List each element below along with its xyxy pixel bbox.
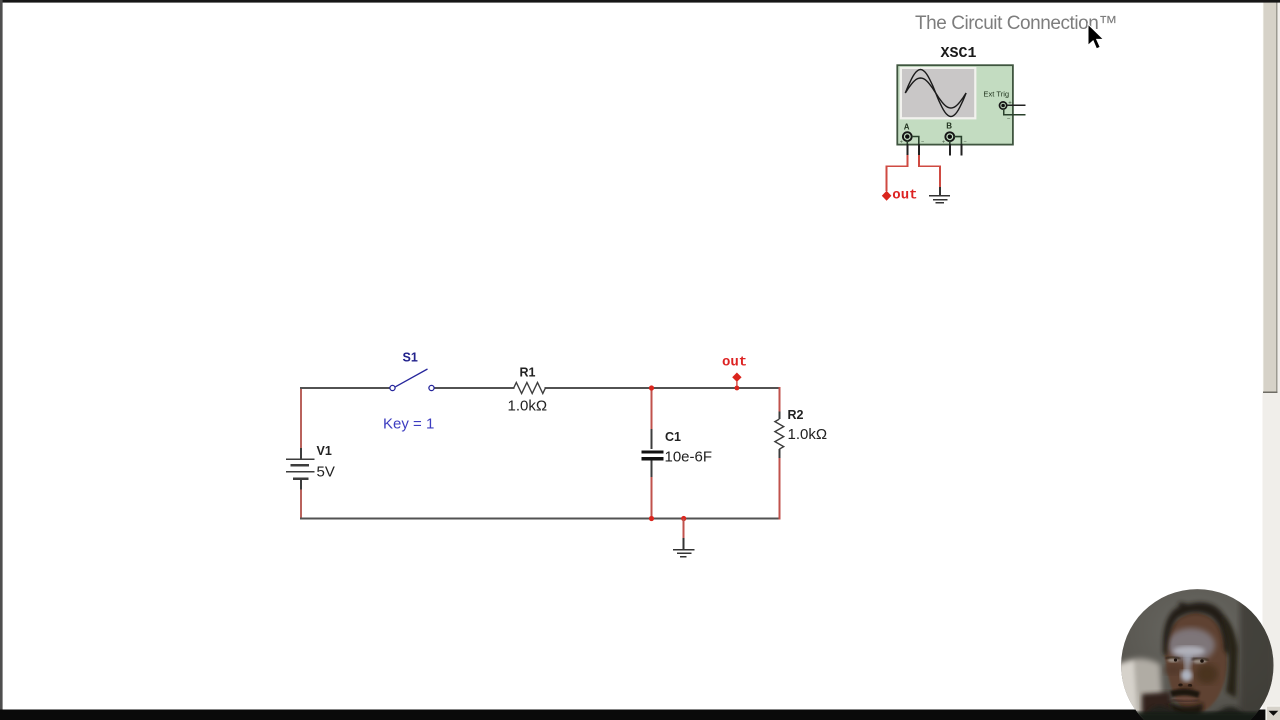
switch S1 [383,351,434,433]
wire capacitor branch [651,388,653,519]
lips [1171,697,1200,702]
sine waveform traces [905,70,966,117]
dark furniture bottom-left [1142,692,1172,720]
switch contact left [390,385,395,390]
top black bar [0,0,1280,3]
junction node C1 top [649,385,654,390]
svg-text:V1: V1 [317,444,332,458]
channel B pin stubs [954,137,961,145]
light wall lower-left [1114,658,1164,720]
R2 leads [778,412,780,458]
wire battery top-left vertical and top run to switch [301,388,390,448]
svg-text:+: + [942,139,945,145]
svg-text:10e-6F: 10e-6F [665,449,713,466]
left window edge [0,0,3,712]
oscilloscope screen [900,67,977,120]
wire left vertical lower [300,490,302,519]
svg-text:Ext Trig: Ext Trig [983,89,1009,98]
under-eye / cheek shading [1164,665,1182,675]
C1 plate bottom [641,457,663,460]
switch contact right [429,385,434,390]
net label out (circuit) with diamond tap [722,355,747,391]
capacitor C1 [641,430,712,466]
channel B terminal [945,132,954,141]
svg-text:5V: 5V [317,464,335,481]
hair right side [1222,616,1238,698]
wire R1 to R2 corner [545,387,779,389]
beard chin [1169,702,1203,720]
switch lever [395,369,427,387]
clothing bottom [1144,705,1248,720]
resistor R2 [775,408,827,458]
junction node C1 bottom [649,516,654,521]
net label out (scope) with diamond [882,188,918,204]
wire right vertical [778,388,780,519]
wire scope channel A- to ground [919,155,940,187]
svg-text:Key = 1: Key = 1 [383,416,434,433]
darker right bg [1240,587,1274,720]
hair cap [1163,602,1231,656]
head base skin [1165,612,1227,714]
svg-text:out: out [722,355,747,371]
svg-text:XSC1: XSC1 [941,45,977,62]
channel A terminal [903,132,912,141]
junction node ground tap [681,516,686,521]
svg-text:1.0kΩ: 1.0kΩ [508,398,548,415]
wire switch to R1 [434,387,514,389]
svg-text:out: out [892,188,917,204]
channel A pin stubs [912,137,919,145]
wire scope channel A+ to out node [887,155,908,191]
svg-text:S1: S1 [403,351,418,365]
mustache [1170,689,1200,698]
svg-text:+: + [900,139,903,145]
R1 zigzag [514,383,546,394]
upper face light [1167,628,1215,662]
scrollbar down button [1266,706,1280,720]
bottom black bar [0,710,1280,720]
svg-text:B: B [946,121,952,130]
svg-text:−: − [964,140,967,146]
oscilloscope body [897,65,1013,144]
svg-text:R1: R1 [520,366,536,380]
svg-text:A: A [904,123,910,132]
C1 plate top [641,450,663,453]
battery pins [300,448,302,490]
svg-text:−: − [921,140,924,146]
scrollbar track [1262,0,1280,720]
wire bottom [301,518,779,520]
R2 zigzag [775,419,784,449]
Ext Trig terminal [1000,102,1007,109]
ground symbol (scope) [929,187,950,203]
svg-text:1.0kΩ: 1.0kΩ [788,426,828,443]
svg-text:The Circuit Connection™: The Circuit Connection™ [915,13,1117,34]
eyes [1168,658,1179,663]
webcam overlay [1114,587,1278,720]
battery long plates [286,459,315,472]
Ext Trig pin wires (+/-) [1007,104,1026,106]
nose tip [1181,670,1193,682]
mouse cursor [1088,24,1104,49]
svg-text:C1: C1 [665,430,681,444]
battery short plates [290,465,309,478]
battery V1 (DC source, 5V) [286,444,335,490]
resistor R1 [508,366,548,415]
svg-text:−: − [1007,117,1011,123]
svg-text:R2: R2 [788,408,804,422]
ground symbol (circuit bottom) [673,519,694,557]
